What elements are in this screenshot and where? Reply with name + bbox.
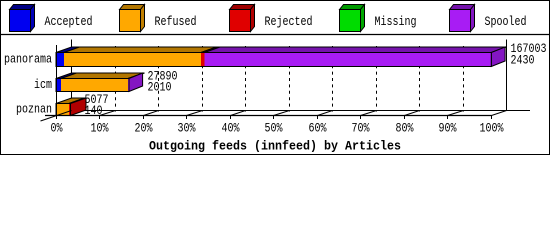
x tick 20% xyxy=(143,116,145,120)
svg-text:poznan: poznan xyxy=(16,102,52,117)
svg-text:2010: 2010 xyxy=(148,80,172,95)
legend cube Rejected xyxy=(230,5,255,32)
svg-text:80%: 80% xyxy=(396,121,414,136)
back y-axis (0% back line) xyxy=(71,40,73,111)
left corner foot diagonal with overshoot xyxy=(41,111,72,122)
bar panorama: right end face xyxy=(491,47,505,67)
dashed gridline 80% xyxy=(419,46,421,112)
svg-text:60%: 60% xyxy=(309,121,327,136)
svg-text:Missing: Missing xyxy=(375,14,417,29)
svg-text:panorama: panorama xyxy=(4,52,52,67)
x tick 70% xyxy=(360,116,362,120)
outer border frame xyxy=(1,1,550,155)
bar icm: front faces xyxy=(56,79,129,92)
front bottom axis xyxy=(45,115,492,117)
dashed gridline 30% xyxy=(202,46,204,112)
x tick 0% xyxy=(56,116,58,120)
foot diagonal 100% xyxy=(492,111,507,116)
foot diagonal 20% xyxy=(144,111,159,116)
foot diagonal 80% xyxy=(405,111,420,116)
svg-text:10%: 10% xyxy=(91,121,109,136)
legend cube Missing xyxy=(340,5,365,32)
foot diagonal 90% xyxy=(448,111,464,116)
bar poznan: front faces xyxy=(56,104,71,116)
x tick 40% xyxy=(230,116,232,120)
legend cube Accepted xyxy=(10,5,35,32)
svg-text:30%: 30% xyxy=(178,121,196,136)
foot diagonal 70% xyxy=(361,111,377,116)
back bottom axis xyxy=(57,110,531,112)
svg-text:100%: 100% xyxy=(480,121,504,136)
dashed gridline 20% xyxy=(158,46,160,112)
dashed gridline 70% xyxy=(376,46,378,112)
x tick 50% xyxy=(273,116,275,120)
svg-text:40%: 40% xyxy=(222,121,240,136)
svg-text:Outgoing feeds (innfeed) by Ar: Outgoing feeds (innfeed) by Articles xyxy=(149,139,401,154)
dashed gridline 10% xyxy=(115,46,117,112)
svg-text:20%: 20% xyxy=(135,121,153,136)
back right line (100% back line) xyxy=(506,40,508,111)
svg-text:Refused: Refused xyxy=(155,14,197,29)
svg-text:0%: 0% xyxy=(51,121,63,136)
dashed gridline 90% xyxy=(463,46,465,112)
svg-text:50%: 50% xyxy=(265,121,283,136)
legend cube Refused xyxy=(120,5,145,32)
dashed gridline 40% xyxy=(245,46,247,112)
foot diagonal 10% xyxy=(100,111,116,116)
bar icm: right end face xyxy=(129,73,143,92)
svg-text:70%: 70% xyxy=(352,121,370,136)
bar panorama: top faces xyxy=(56,47,507,53)
bar panorama: front faces xyxy=(56,53,491,67)
svg-text:icm: icm xyxy=(34,77,52,92)
foot diagonal 40% xyxy=(231,111,246,116)
x tick 30% xyxy=(186,116,188,120)
x tick 90% xyxy=(447,116,449,120)
svg-text:90%: 90% xyxy=(439,121,457,136)
dashed gridline 60% xyxy=(332,46,334,112)
bar poznan: top faces xyxy=(56,98,86,104)
bar icm: top faces xyxy=(56,73,145,79)
x tick 80% xyxy=(404,116,406,120)
legend cube Spooled xyxy=(450,5,475,32)
x tick 10% xyxy=(99,116,101,120)
svg-text:140: 140 xyxy=(85,103,103,118)
foot diagonal 60% xyxy=(318,111,333,116)
dashed gridline 50% xyxy=(289,46,291,112)
legend separator line xyxy=(1,34,549,36)
svg-text:Accepted: Accepted xyxy=(45,14,93,29)
svg-text:Spooled: Spooled xyxy=(485,14,527,29)
svg-text:Rejected: Rejected xyxy=(265,14,313,29)
bar poznan: right end face xyxy=(71,98,87,116)
x tick 60% xyxy=(317,116,319,120)
front y-axis xyxy=(56,45,58,116)
foot diagonal 30% xyxy=(187,111,203,116)
foot diagonal 50% xyxy=(274,111,290,116)
x tick 100% xyxy=(491,116,493,120)
svg-text:2430: 2430 xyxy=(511,53,535,68)
